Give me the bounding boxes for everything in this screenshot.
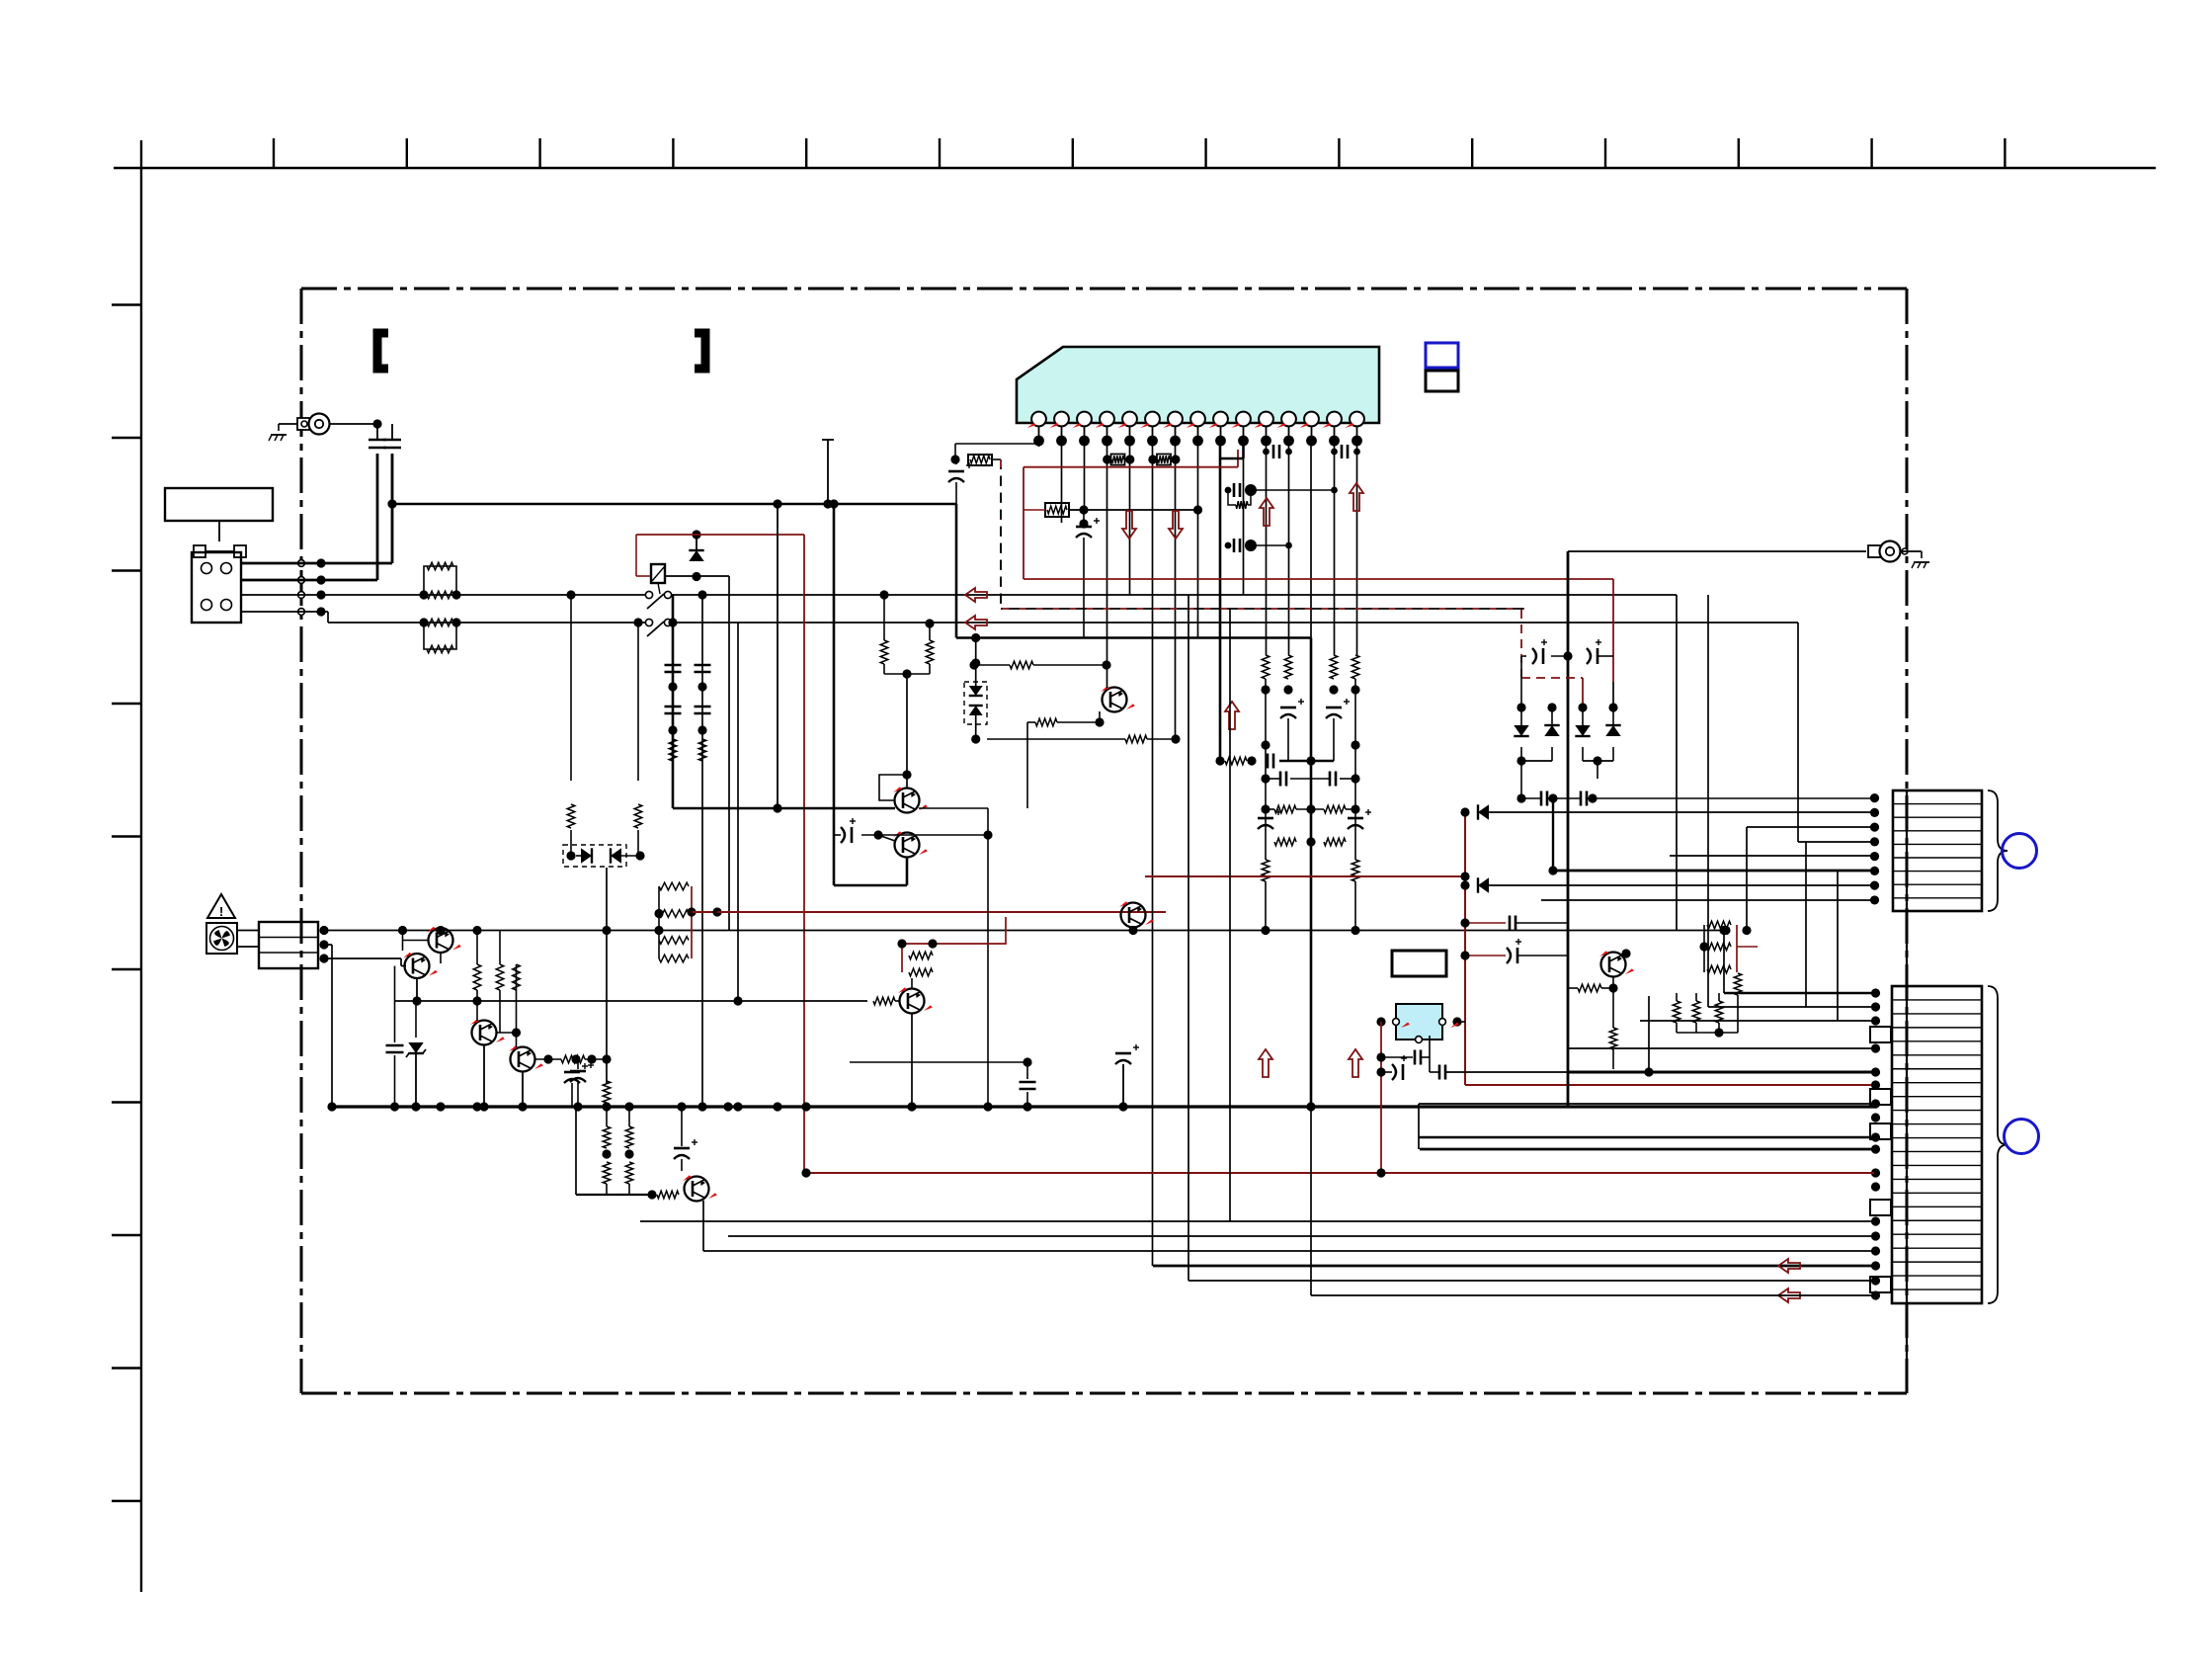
svg-text:!: ! xyxy=(219,904,223,919)
